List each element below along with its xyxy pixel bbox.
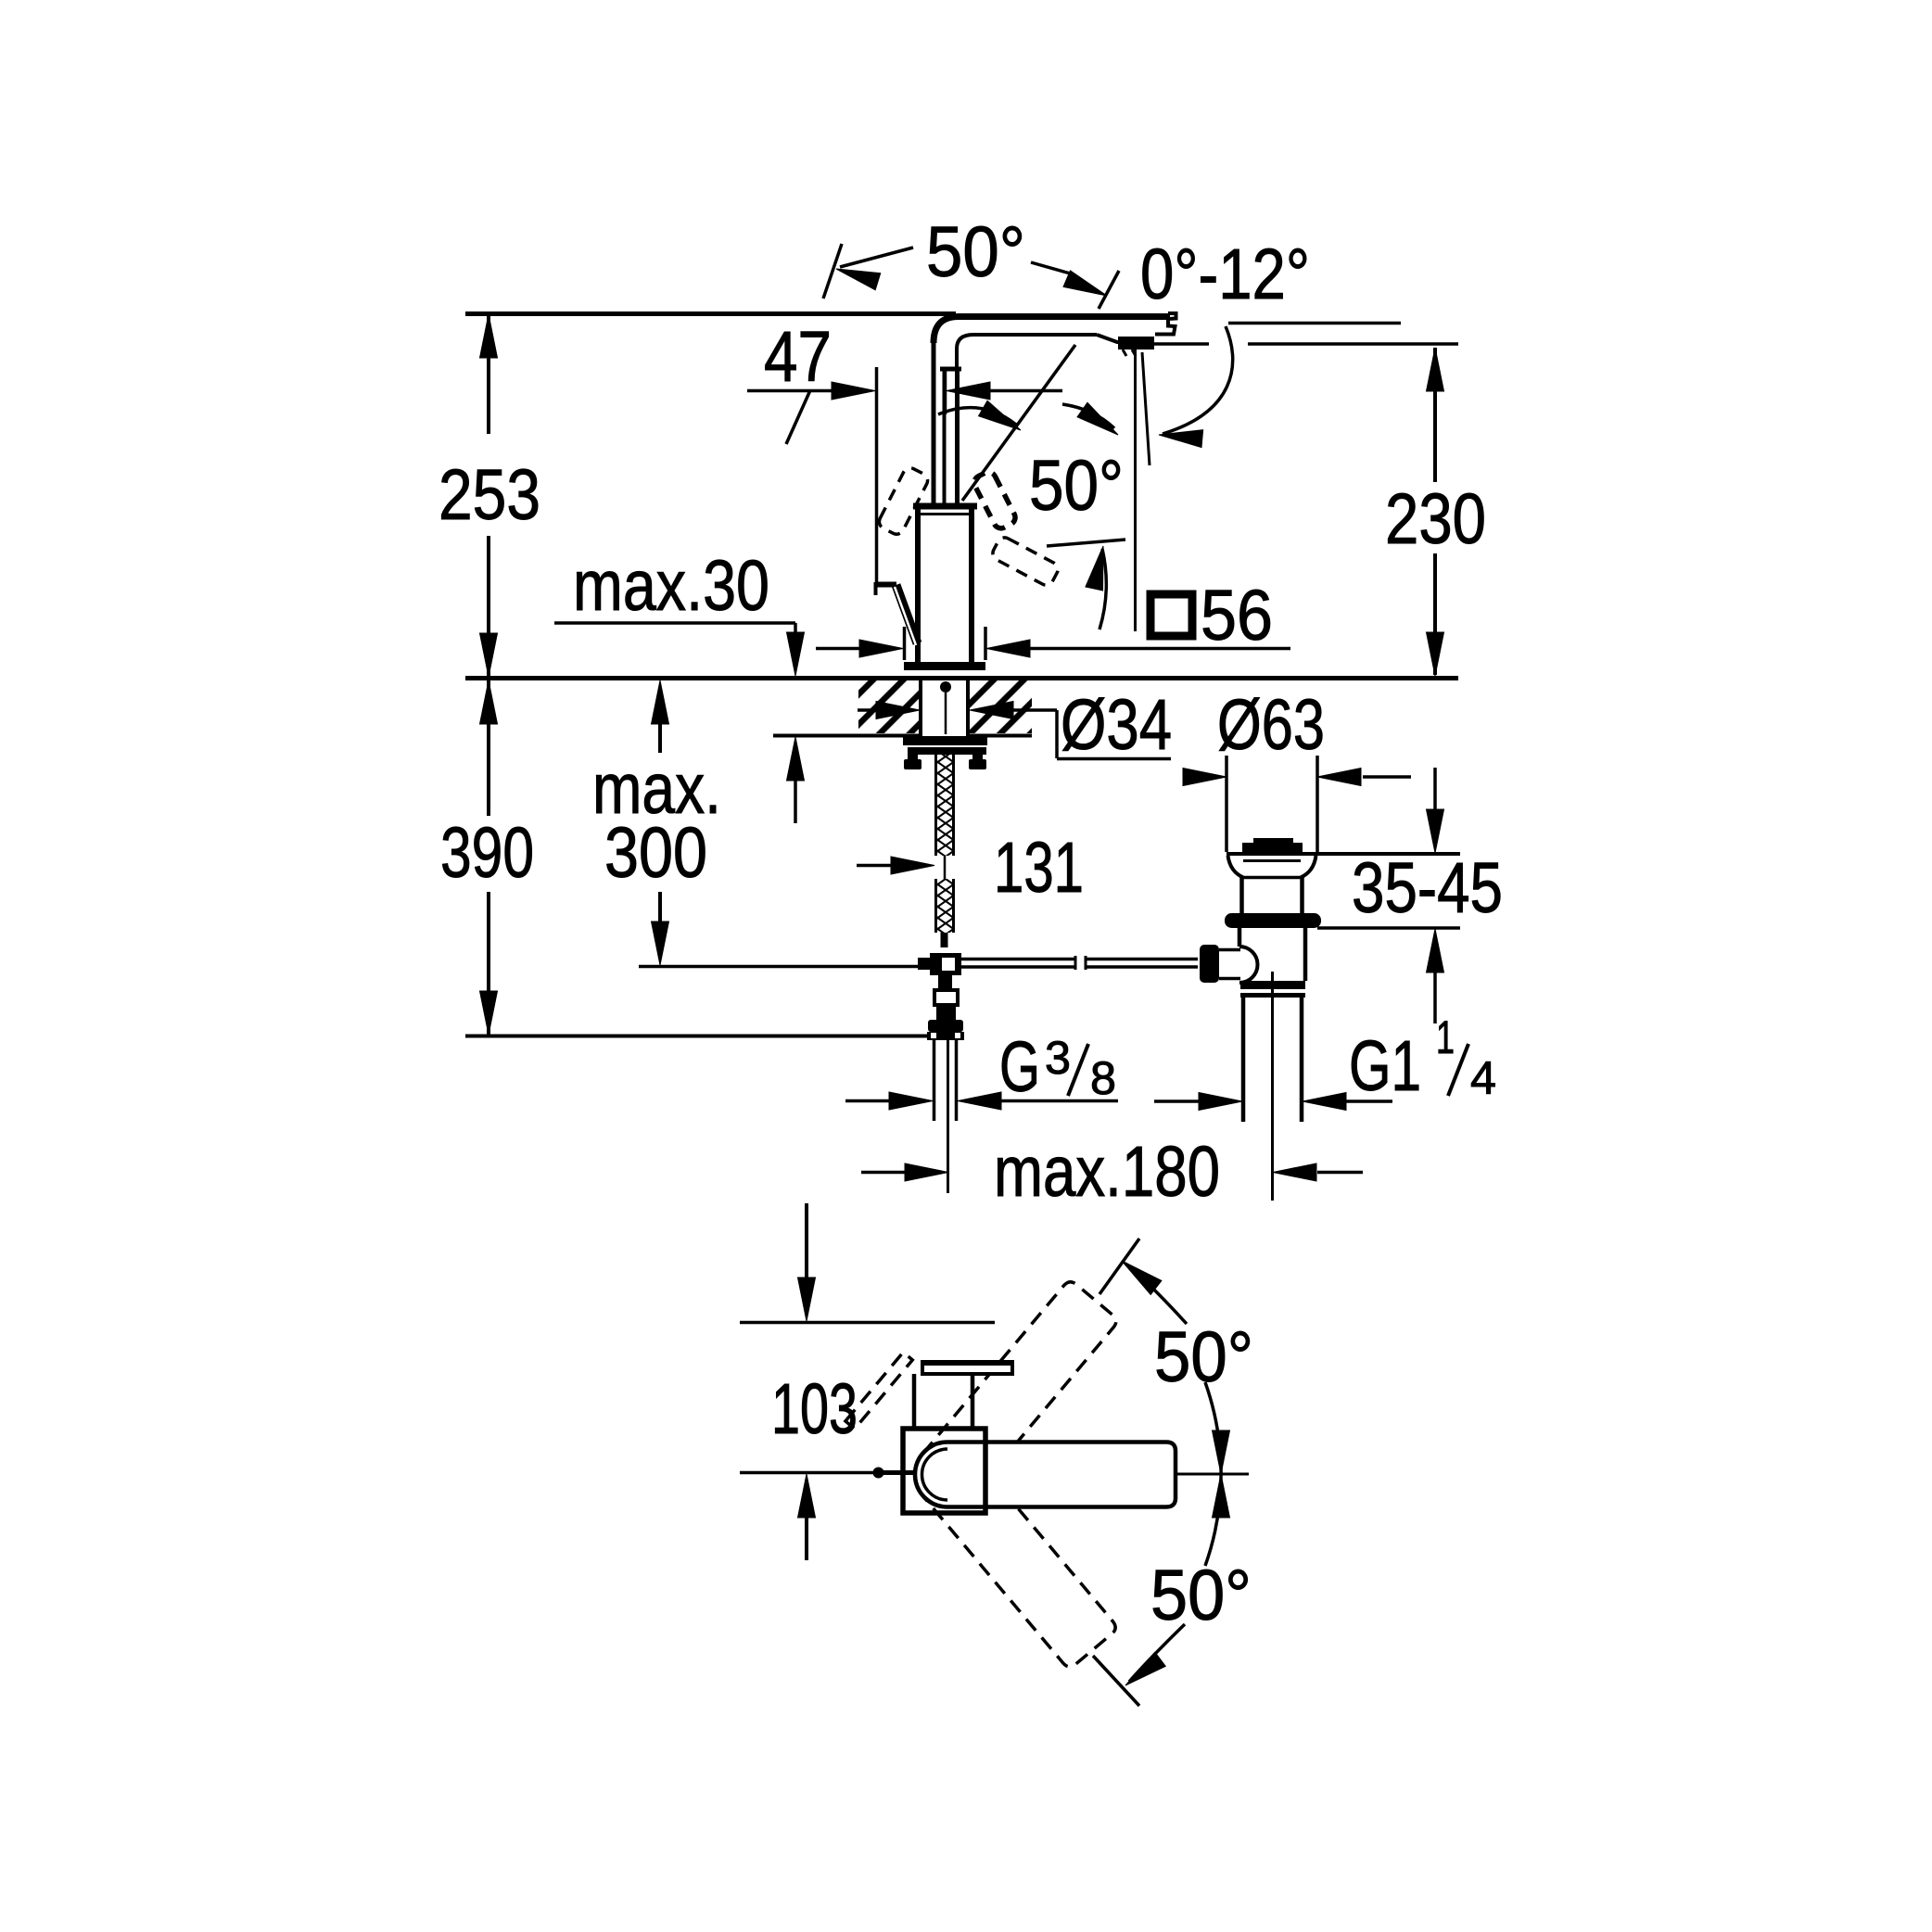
- dimension max300 arrows: [652, 680, 669, 724]
- dimension G1 1/4: [1154, 1099, 1200, 1103]
- plan dimension 103 top reference line: [740, 1321, 995, 1325]
- svg-text:1: 1: [1436, 1011, 1455, 1063]
- aerator: [1118, 337, 1154, 350]
- right bolt: [972, 755, 983, 760]
- top 50 right arrow: [1031, 262, 1074, 274]
- drain cap: [1242, 843, 1303, 854]
- svg-text:103: 103: [771, 1369, 858, 1449]
- deck underside line left: [773, 734, 919, 738]
- svg-text:253: 253: [439, 455, 540, 535]
- mounting washer: [908, 747, 986, 755]
- dimension 47 line: [747, 389, 833, 393]
- dimension 35-45 arrows: [1433, 768, 1437, 813]
- faucet base flange: [904, 662, 985, 670]
- svg-text:3: 3: [1045, 1032, 1071, 1084]
- drain knob: [1200, 945, 1219, 983]
- dimension 63 arrows: [1185, 775, 1191, 779]
- svg-text:50°: 50°: [1150, 1556, 1252, 1635]
- dimension max180: [861, 1171, 906, 1175]
- faucet body top cap: [913, 503, 977, 510]
- svg-text:35-45: 35-45: [1352, 848, 1503, 928]
- svg-text:50°: 50°: [926, 212, 1025, 292]
- shank screw dot: [940, 681, 951, 693]
- dashed handle left: [877, 465, 931, 537]
- deck hatch right: [970, 680, 1032, 733]
- tailpipe centerline: [1271, 972, 1274, 1201]
- dashed handle right lower: [990, 535, 1061, 588]
- drain tailpipe: [1241, 998, 1246, 1122]
- ball joint arc: [1239, 947, 1258, 983]
- drain flare: [1228, 856, 1244, 878]
- dimension 34 arrows: [858, 708, 876, 712]
- svg-text:max.180: max.180: [994, 1132, 1220, 1212]
- aerator ticks: [1123, 350, 1126, 356]
- square symbol 56: [1150, 594, 1192, 636]
- svg-text:Ø63: Ø63: [1217, 685, 1325, 765]
- faucet body left wall: [915, 508, 921, 662]
- plan lower 50 tick: [1093, 1656, 1139, 1706]
- 0-12 underline: [1228, 322, 1401, 325]
- svg-text:390: 390: [440, 813, 534, 893]
- svg-text:max.30: max.30: [573, 546, 769, 626]
- hose break line: [944, 856, 947, 879]
- handle open position edge line: [1047, 540, 1125, 546]
- 35-45 bottom reference line: [1317, 926, 1460, 930]
- 0-12 arc: [1163, 326, 1233, 434]
- drain top plane line: [1227, 852, 1460, 856]
- svg-text:Ø34: Ø34: [1061, 685, 1172, 765]
- mounting bracket bar: [903, 736, 987, 745]
- right nut: [969, 759, 986, 769]
- hose connector stack: [938, 973, 952, 990]
- plan centerline: [1176, 1473, 1249, 1476]
- diameter 63 extension lines: [1225, 756, 1228, 852]
- max300 bottom reference line: [639, 965, 929, 969]
- svg-text:4: 4: [1470, 1052, 1496, 1104]
- handle shaft: [943, 370, 947, 506]
- spout riser inner: [957, 335, 1097, 508]
- pop-up rod cross fitting: [930, 953, 961, 975]
- plan lower 50 arc: [1129, 1624, 1185, 1682]
- svg-text:G1: G1: [1349, 1026, 1421, 1106]
- plan upper 50 arc: [1125, 1264, 1187, 1324]
- dimension 253 top reference line: [465, 311, 956, 316]
- plan 103 bottom reference line: [740, 1471, 875, 1475]
- deck underside line right: [970, 734, 1032, 738]
- handle lowered profile: [874, 582, 878, 595]
- top 50 left arrow: [833, 261, 881, 290]
- supply pipe: [933, 1040, 936, 1121]
- dashed handle right upper: [972, 469, 1018, 530]
- max.30 leader line: [554, 621, 795, 625]
- pop-up rod: [961, 958, 1075, 961]
- 390 bottom reference line: [465, 1035, 928, 1038]
- plan lever bar: [922, 1362, 1012, 1374]
- plan barrel left end arcs: [915, 1443, 947, 1507]
- dimension 56 at deck: [816, 647, 861, 651]
- dimension 253 vertical line: [487, 314, 490, 434]
- faucet body right wall: [969, 508, 974, 662]
- spout riser outer: [932, 341, 936, 508]
- drain body: [1238, 928, 1242, 947]
- svg-text:131: 131: [994, 828, 1084, 908]
- drain o-ring: [1225, 913, 1321, 928]
- plan dashed spout barrel lower: [901, 1429, 1118, 1670]
- braided hose upper segment: [937, 747, 952, 856]
- plan 103 up arrow: [798, 1474, 816, 1518]
- 230 top reference line: [1153, 342, 1209, 346]
- top 50 left tick: [823, 244, 842, 299]
- svg-text:0°-12°: 0°-12°: [1140, 235, 1310, 314]
- handle swing arc right: [1062, 404, 1114, 428]
- svg-text:300: 300: [604, 813, 707, 893]
- drain coupling bands: [1240, 981, 1305, 989]
- plan swing arc: [1205, 1382, 1221, 1566]
- spout underside step: [1097, 335, 1154, 342]
- svg-text:47: 47: [764, 317, 832, 397]
- max.30 lower arrow: [787, 737, 805, 781]
- svg-text:50°: 50°: [1029, 446, 1124, 526]
- plan spout barrel: [947, 1443, 1176, 1507]
- handle lift arc: [1099, 549, 1106, 629]
- svg-text:50°: 50°: [1154, 1317, 1253, 1397]
- plan pull rod: [881, 1470, 916, 1475]
- compression nut: [928, 1020, 963, 1032]
- hose end tube: [941, 933, 948, 947]
- dimension 230 vertical line: [1433, 348, 1437, 482]
- 47 extension line left: [875, 367, 879, 582]
- svg-text:230: 230: [1385, 479, 1486, 559]
- 47 extension line right: [944, 367, 947, 414]
- handle swing arc left: [938, 408, 1016, 425]
- water stream vertical line: [1134, 350, 1137, 631]
- drain neck: [1239, 878, 1244, 915]
- dimension G3/8: [845, 1099, 891, 1103]
- dimension 390 vertical line: [487, 680, 490, 816]
- spout tip outline: [1155, 313, 1176, 335]
- dimension 131 leader: [857, 864, 892, 868]
- plan handle shaft: [912, 1374, 917, 1429]
- top 50 right tick: [1099, 271, 1119, 309]
- supply pipe centerline: [947, 1040, 949, 1193]
- plan base square: [903, 1429, 985, 1513]
- left nut: [904, 759, 922, 769]
- diameter 34 leader: [1057, 757, 1171, 761]
- left extreme tick: [786, 390, 810, 444]
- svg-text:8: 8: [1090, 1052, 1116, 1104]
- handle tilted centerline: [962, 345, 1075, 501]
- svg-text:G: G: [999, 1027, 1040, 1107]
- svg-text:56: 56: [1201, 576, 1273, 655]
- plan 103 down arrow: [805, 1203, 808, 1281]
- left bolt: [908, 755, 918, 760]
- faucet shank through deck: [919, 679, 922, 736]
- counter deck top line: [465, 676, 1458, 680]
- deck hatch left: [858, 680, 919, 733]
- braided hose lower segment: [937, 879, 952, 933]
- plan dashed spout barrel upper: [841, 1227, 1120, 1520]
- plan upper 50 tick: [1099, 1239, 1139, 1294]
- stream tilt line: [1142, 352, 1150, 465]
